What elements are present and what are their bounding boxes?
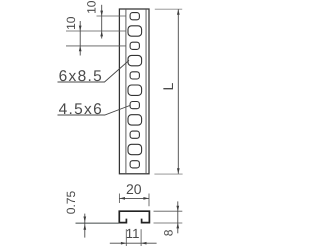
svg-text:8: 8 [162, 229, 176, 236]
svg-text:10: 10 [64, 16, 78, 30]
svg-text:L: L [160, 83, 176, 91]
svg-text:11: 11 [126, 226, 140, 241]
svg-text:20: 20 [126, 181, 142, 197]
svg-text:10: 10 [84, 0, 98, 14]
svg-text:0.75: 0.75 [64, 191, 78, 215]
